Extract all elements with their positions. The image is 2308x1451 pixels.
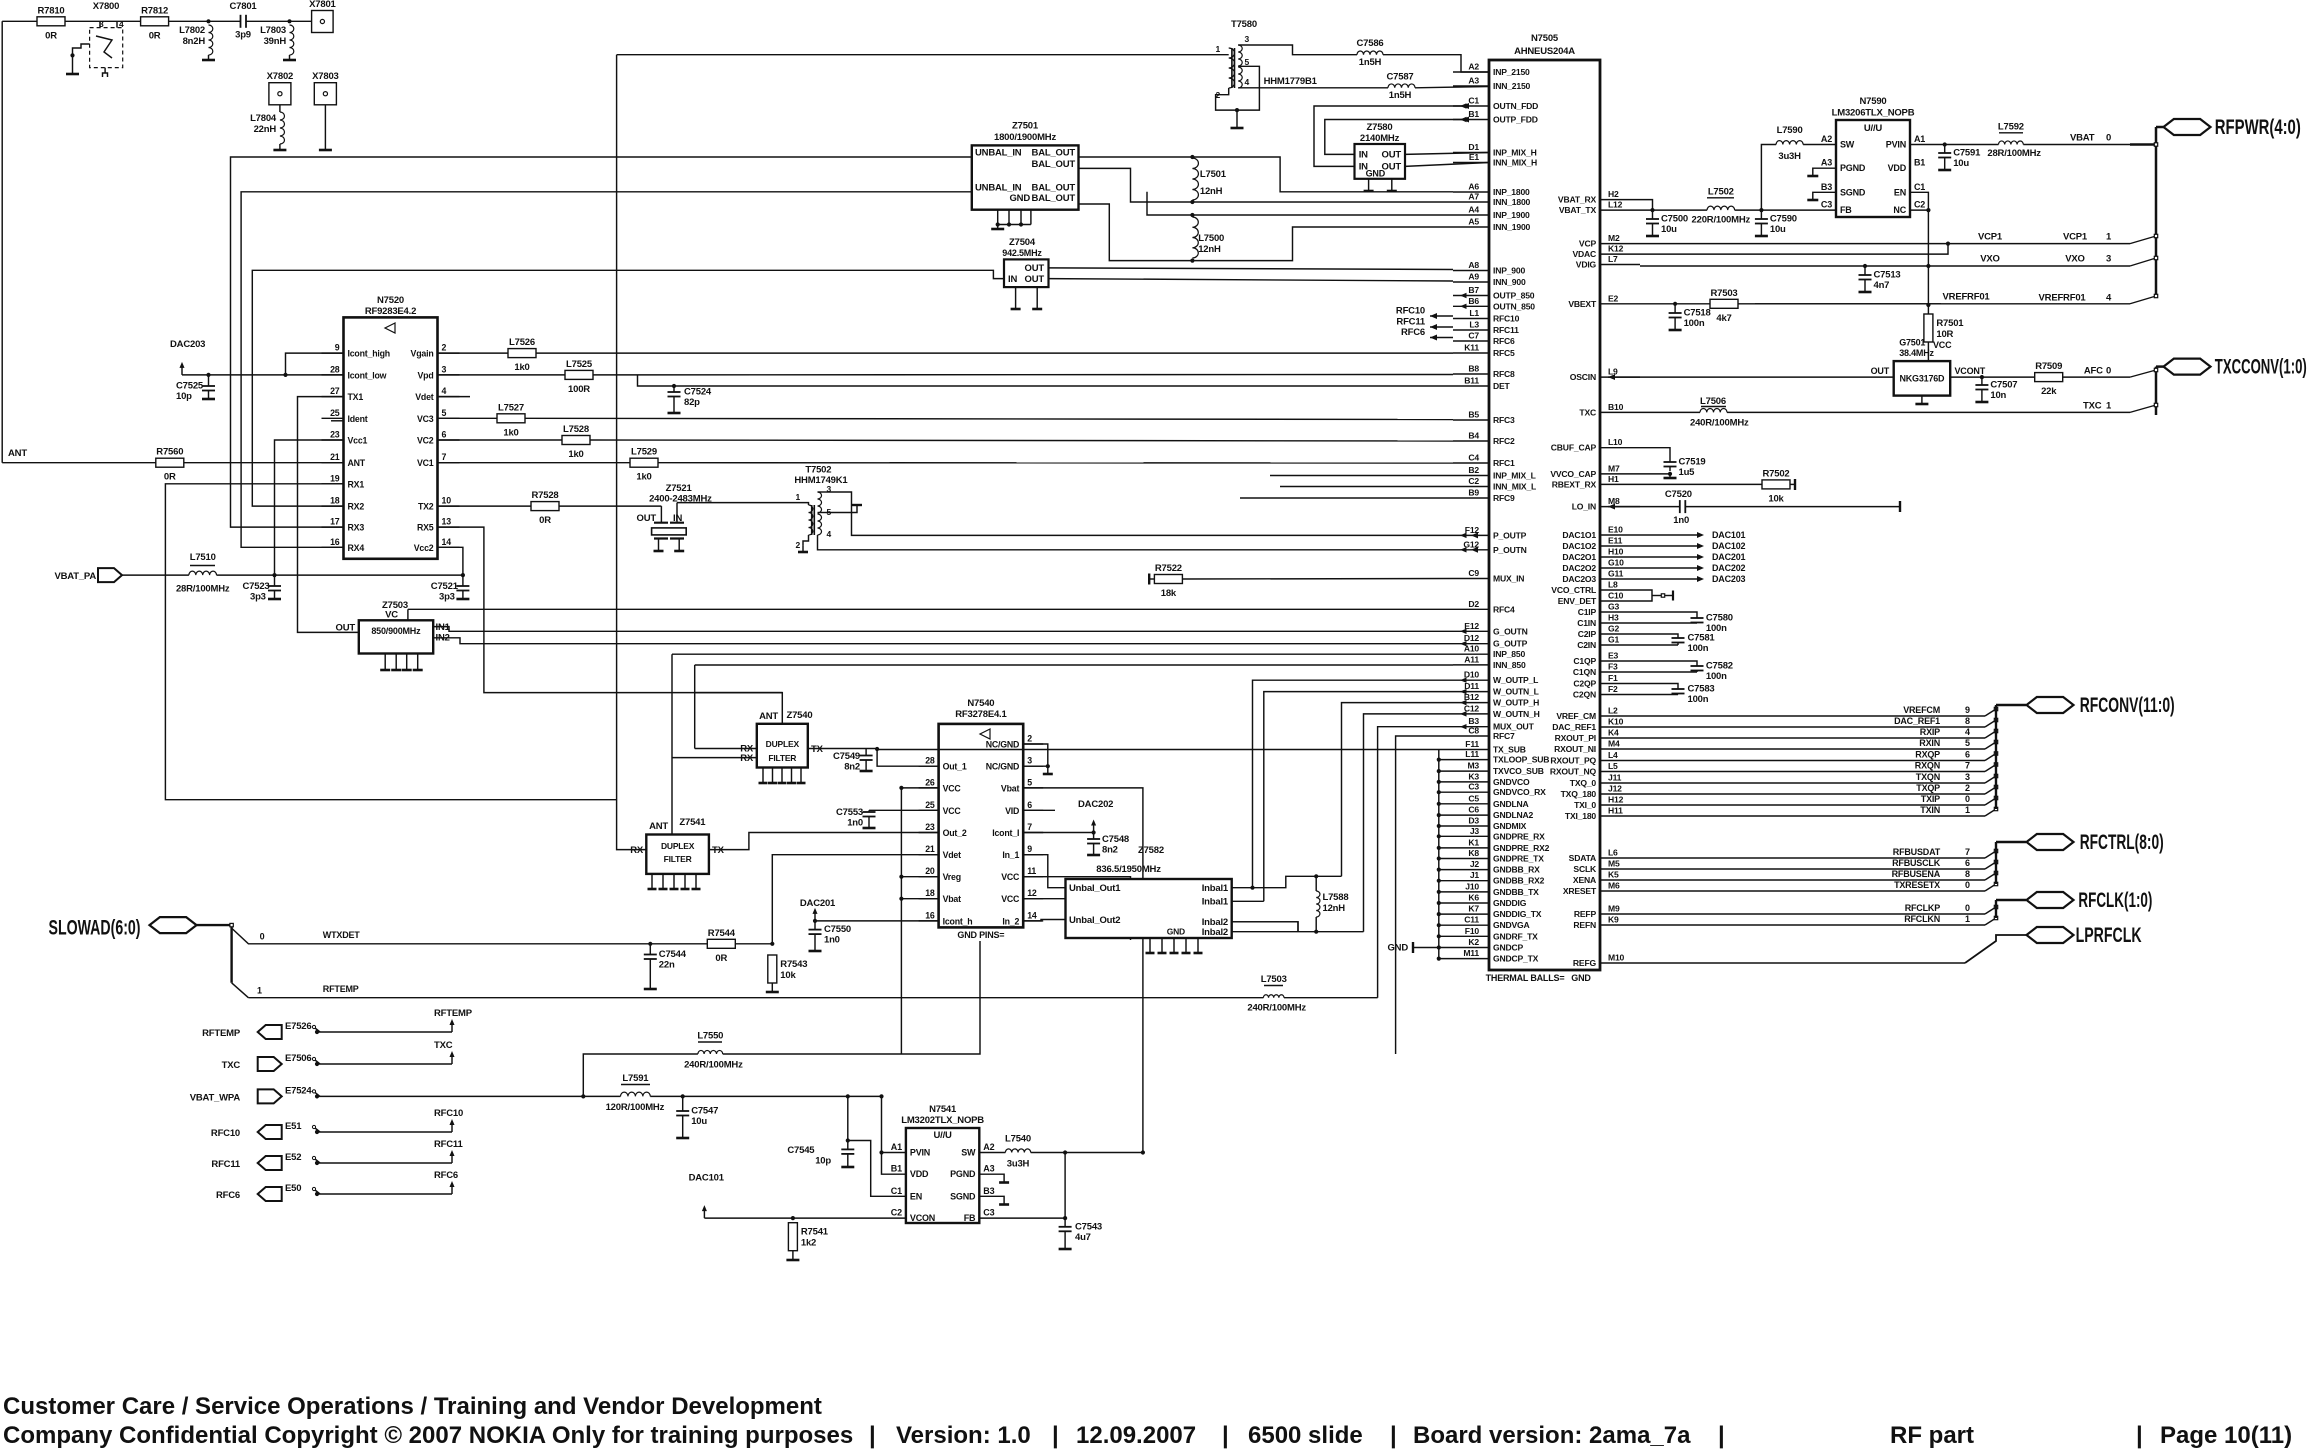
svg-text:18k: 18k — [1161, 588, 1177, 599]
svg-text:L7501: L7501 — [1200, 169, 1227, 180]
svg-text:K6: K6 — [1468, 893, 1479, 903]
wire T7580 pin1 — [617, 54, 1229, 56]
wire Z7504 OUT1 to INP_900 — [1049, 268, 1454, 270]
node GND — [1387, 942, 1438, 954]
ground — [402, 654, 412, 671]
svg-text:26: 26 — [925, 777, 935, 787]
wire RX3 to Z7501 — [231, 157, 972, 527]
svg-text:K3: K3 — [1468, 771, 1479, 781]
svg-text:VBEXT: VBEXT — [1568, 299, 1597, 309]
capacitor C7518 — [1669, 304, 1711, 329]
svg-text:L7804: L7804 — [250, 113, 277, 124]
svg-text:C2: C2 — [1468, 476, 1479, 486]
svg-text:C7801: C7801 — [230, 1, 258, 12]
svg-text:X7801: X7801 — [309, 0, 336, 10]
svg-text:VREFRF01: VREFRF01 — [1943, 292, 1991, 303]
ground — [273, 149, 286, 152]
ground — [1859, 291, 1872, 294]
wire Vbat18 — [899, 788, 938, 1054]
svg-text:RXOUT_NQ: RXOUT_NQ — [1550, 767, 1597, 777]
svg-text:INN_2150: INN_2150 — [1493, 81, 1531, 91]
svg-text:W_OUTP_L: W_OUTP_L — [1493, 675, 1538, 685]
wire Z7540 ANT — [695, 693, 783, 724]
svg-text:R7560: R7560 — [156, 447, 183, 458]
svg-text:C7582: C7582 — [1706, 661, 1733, 672]
svg-text:VCC: VCC — [1001, 872, 1020, 882]
svg-text:H2: H2 — [1608, 189, 1619, 199]
svg-text:N7590: N7590 — [1860, 96, 1887, 107]
ground — [991, 225, 1004, 230]
ground — [1915, 396, 1928, 404]
svg-text:82p: 82p — [684, 397, 700, 408]
svg-text:RFCLK(1:0): RFCLK(1:0) — [2078, 889, 2152, 912]
inductor L7540 — [1005, 1134, 1031, 1170]
svg-text:AHNEUS204A: AHNEUS204A — [1514, 46, 1575, 57]
wire VBAT rail to FB — [1735, 208, 1836, 212]
svg-text:H3: H3 — [1608, 613, 1619, 623]
svg-text:1u5: 1u5 — [1679, 467, 1696, 478]
svg-text:DAC2O2: DAC2O2 — [1562, 563, 1596, 573]
svg-text:Z7540: Z7540 — [787, 710, 813, 721]
bus LPRFCLK — [1640, 935, 2026, 963]
svg-text:C1: C1 — [1914, 182, 1925, 192]
ground — [1938, 169, 1951, 172]
module Z7503 850/900MHz — [336, 600, 451, 654]
svg-text:VBAT: VBAT — [2070, 133, 2095, 144]
svg-text:NKG3176D: NKG3176D — [1899, 374, 1945, 384]
wire ANT — [8, 448, 344, 463]
svg-text:6: 6 — [1965, 858, 1970, 868]
svg-text:|: | — [2136, 1422, 2143, 1449]
svg-text:4: 4 — [442, 386, 447, 396]
svg-text:HHM1779B1: HHM1779B1 — [1264, 76, 1318, 87]
svg-text:OUTN_FDD: OUTN_FDD — [1493, 101, 1538, 111]
svg-text:12: 12 — [1027, 888, 1037, 898]
wire L7540 out — [1031, 1150, 1145, 1154]
svg-text:C7519: C7519 — [1679, 457, 1706, 468]
svg-text:IN: IN — [1359, 150, 1368, 161]
svg-text:RFC10: RFC10 — [434, 1108, 463, 1119]
svg-text:INN_MIX_L: INN_MIX_L — [1493, 482, 1536, 492]
svg-text:H10: H10 — [1608, 547, 1624, 557]
svg-text:INP_900: INP_900 — [1493, 266, 1525, 276]
svg-text:L7591: L7591 — [622, 1073, 649, 1084]
svg-text:RX4: RX4 — [348, 543, 365, 553]
svg-text:20: 20 — [925, 866, 935, 876]
wire BAL_OUT1 to INP_1800 — [1079, 157, 1454, 192]
wire Vbat5 rail — [1023, 788, 1143, 1153]
svg-text:RFC10: RFC10 — [1493, 314, 1520, 324]
ground pin Z7540 — [787, 768, 796, 784]
svg-text:27: 27 — [330, 386, 340, 396]
svg-text:E10: E10 — [1608, 525, 1623, 535]
svg-text:XENA: XENA — [1573, 875, 1596, 885]
connector X7801 — [309, 0, 336, 33]
svg-text:G_OUTN: G_OUTN — [1493, 626, 1528, 636]
svg-text:R7541: R7541 — [801, 1227, 829, 1238]
ground — [456, 598, 469, 601]
svg-text:Z7521: Z7521 — [666, 483, 693, 494]
resistor R7528 — [531, 490, 559, 526]
svg-text:B5: B5 — [1468, 410, 1479, 420]
svg-text:INP_MIX_L: INP_MIX_L — [1493, 471, 1536, 481]
svg-text:6: 6 — [1027, 800, 1032, 810]
svg-text:E7526: E7526 — [285, 1021, 311, 1032]
svg-text:VREFRF01: VREFRF01 — [2039, 293, 2087, 304]
svg-text:GNDVCO_RX: GNDVCO_RX — [1493, 787, 1546, 797]
svg-text:19: 19 — [330, 473, 340, 483]
svg-text:9: 9 — [1965, 705, 1970, 715]
svg-text:Z7504: Z7504 — [1009, 237, 1036, 248]
capacitor C7548 — [1087, 833, 1129, 856]
resistor R7543 — [768, 955, 808, 983]
wire WTXDET — [232, 928, 651, 944]
svg-text:A9: A9 — [1468, 272, 1479, 282]
svg-text:23: 23 — [925, 822, 935, 832]
wire — [792, 1251, 794, 1259]
transistor X7800 (GaAs switch, dashed) — [66, 1, 124, 77]
svg-text:ANT: ANT — [348, 458, 366, 468]
svg-text:850/900MHz: 850/900MHz — [371, 626, 421, 636]
ground — [786, 1259, 799, 1262]
svg-text:100n: 100n — [1688, 694, 1709, 705]
svg-text:RXOUT_NI: RXOUT_NI — [1554, 744, 1596, 754]
svg-text:RFC5: RFC5 — [1493, 348, 1515, 358]
svg-text:XRESET: XRESET — [1563, 886, 1597, 896]
wire VDD — [882, 1153, 906, 1175]
wire VBAT to RFPWR — [2023, 133, 2130, 145]
svg-text:E7524: E7524 — [285, 1085, 312, 1096]
svg-text:DAC_REF1: DAC_REF1 — [1894, 716, 1940, 726]
svg-text:100n: 100n — [1684, 318, 1705, 329]
svg-text:C7: C7 — [1468, 331, 1479, 341]
svg-text:REFP: REFP — [1574, 909, 1597, 919]
ground pin Z7541 — [648, 874, 657, 889]
svg-text:L2: L2 — [1608, 706, 1618, 716]
svg-text:GNDDIG_TX: GNDDIG_TX — [1493, 909, 1542, 919]
svg-text:R7528: R7528 — [532, 490, 559, 501]
svg-text:C7518: C7518 — [1684, 308, 1711, 319]
ground — [860, 770, 873, 773]
svg-text:A2: A2 — [1468, 62, 1479, 72]
svg-text:Vbat: Vbat — [943, 894, 962, 904]
svg-text:0: 0 — [260, 932, 265, 942]
svg-text:GNDBB_TX: GNDBB_TX — [1493, 887, 1539, 897]
svg-text:120R/100MHz: 120R/100MHz — [606, 1102, 665, 1113]
svg-text:R7812: R7812 — [141, 5, 168, 16]
svg-text:GND: GND — [1387, 943, 1408, 954]
svg-text:TX_SUB: TX_SUB — [1493, 745, 1526, 755]
svg-text:UNBAL_IN: UNBAL_IN — [975, 148, 1022, 159]
svg-text:R7522: R7522 — [1155, 563, 1182, 574]
svg-text:10u: 10u — [691, 1116, 707, 1127]
node DAC201 — [1640, 552, 1746, 562]
svg-text:2: 2 — [1027, 734, 1032, 744]
wire SW to L7540 — [979, 1152, 1005, 1154]
svg-text:SGND: SGND — [1840, 187, 1866, 197]
ground — [319, 149, 332, 152]
svg-text:B11: B11 — [1464, 376, 1479, 386]
svg-text:0: 0 — [1965, 903, 1970, 913]
ground — [1043, 773, 1053, 776]
wire — [771, 983, 773, 991]
svg-text:A2: A2 — [1821, 134, 1832, 144]
svg-text:L4: L4 — [1608, 750, 1618, 760]
svg-text:Inbal1: Inbal1 — [1202, 883, 1229, 894]
wire Icont_h DAC201 — [813, 919, 939, 923]
wire VBAT_RX — [1640, 200, 1653, 211]
svg-text:5: 5 — [1027, 777, 1032, 787]
ground pin Z7582 — [1182, 938, 1191, 953]
wire ANT left — [2, 462, 156, 464]
wire — [324, 105, 326, 149]
wire PGND — [979, 1174, 1009, 1182]
svg-text:INP_MIX_H: INP_MIX_H — [1493, 148, 1537, 158]
svg-text:C7520: C7520 — [1665, 489, 1692, 500]
wire LO_IN right — [1685, 501, 1900, 512]
svg-text:F3: F3 — [1608, 662, 1618, 672]
svg-text:TXI_180: TXI_180 — [1565, 811, 1597, 821]
svg-text:C7548: C7548 — [1102, 834, 1129, 845]
svg-text:C4: C4 — [1468, 453, 1479, 463]
svg-text:0: 0 — [1965, 880, 1970, 890]
wire VDIG to VXO — [1640, 254, 2130, 269]
svg-text:D11: D11 — [1464, 681, 1479, 691]
wire LO_IN — [1608, 489, 1692, 510]
svg-text:VVCO_CAP: VVCO_CAP — [1550, 469, 1596, 479]
svg-text:M9: M9 — [1608, 904, 1620, 914]
wire to INN_2150 — [1415, 87, 1489, 88]
svg-text:SW: SW — [961, 1148, 976, 1158]
svg-text:RFC11: RFC11 — [434, 1139, 463, 1150]
svg-text:T7502: T7502 — [805, 465, 831, 476]
svg-text:100n: 100n — [1688, 643, 1709, 654]
svg-text:23: 23 — [330, 430, 340, 440]
svg-text:D3: D3 — [1468, 816, 1479, 826]
svg-text:L7506: L7506 — [1700, 396, 1726, 407]
svg-text:L7588: L7588 — [1323, 892, 1349, 903]
svg-text:RFTEMP: RFTEMP — [323, 984, 359, 994]
svg-text:BAL_OUT: BAL_OUT — [1032, 193, 1076, 204]
wire Z7580 OUT2 to INN_MIX_H — [1405, 163, 1489, 167]
svg-text:J1: J1 — [1470, 870, 1480, 880]
svg-text:|: | — [1052, 1422, 1059, 1449]
ground — [1664, 477, 1677, 480]
svg-text:14: 14 — [1027, 910, 1037, 920]
wire TX2 — [438, 505, 532, 507]
svg-text:RFBUSCLK: RFBUSCLK — [1892, 858, 1941, 868]
svg-text:L7: L7 — [1608, 254, 1618, 264]
svg-text:GNDDIG: GNDDIG — [1493, 898, 1527, 908]
inductor L7529 — [630, 447, 658, 483]
svg-text:A3: A3 — [1821, 158, 1832, 168]
svg-text:C1: C1 — [891, 1186, 902, 1196]
svg-text:Unbal_Out1: Unbal_Out1 — [1069, 883, 1121, 894]
wire Z7503 IN1 to G_OUTN — [433, 627, 1453, 632]
svg-text:U//U: U//U — [1864, 123, 1883, 134]
svg-text:RFC8: RFC8 — [1493, 369, 1515, 379]
wire T7502 pin4 P_OUTN — [826, 547, 1478, 553]
svg-text:C7543: C7543 — [1075, 1221, 1102, 1232]
svg-text:10n: 10n — [1990, 390, 2006, 401]
svg-text:C1QP: C1QP — [1573, 656, 1596, 666]
ground pin Z7540 — [759, 768, 768, 784]
ground pin Z7501 — [1020, 210, 1022, 225]
svg-text:DAC1O1: DAC1O1 — [1562, 530, 1596, 540]
wire Vdet to R7543 — [772, 855, 938, 944]
svg-text:R7544: R7544 — [708, 928, 736, 939]
svg-text:GNDBB_RX: GNDBB_RX — [1493, 865, 1540, 875]
wire TXC out — [1640, 396, 1726, 412]
svg-text:LO_IN: LO_IN — [1572, 502, 1596, 512]
node DAC101 — [1640, 530, 1746, 540]
wire RX4 to Z7501 — [241, 192, 972, 548]
svg-text:1: 1 — [1965, 914, 1970, 924]
svg-text:FILTER: FILTER — [768, 753, 796, 763]
wire VID — [1023, 809, 1055, 811]
svg-text:RFCLKP: RFCLKP — [1905, 903, 1940, 913]
svg-text:Customer Care / Service Operat: Customer Care / Service Operations / Tra… — [3, 1393, 822, 1420]
svg-text:3: 3 — [1245, 34, 1250, 44]
svg-text:1n0: 1n0 — [1673, 515, 1689, 526]
svg-text:DAC203: DAC203 — [170, 339, 205, 350]
resistor R7501 — [1924, 314, 1964, 342]
node DAC102 — [1640, 541, 1746, 551]
svg-text:Vpd: Vpd — [417, 370, 433, 380]
svg-text:SCLK: SCLK — [1573, 864, 1597, 874]
svg-text:RFBUSDAT: RFBUSDAT — [1893, 847, 1941, 857]
wire TX2 to Z7521 — [559, 505, 661, 507]
svg-text:5: 5 — [1245, 57, 1250, 67]
wire riser x694 — [694, 665, 696, 749]
svg-text:L7525: L7525 — [566, 359, 593, 370]
resistor R7812 — [141, 5, 169, 41]
svg-text:B7: B7 — [1468, 285, 1479, 295]
svg-text:RFC11: RFC11 — [1396, 317, 1425, 328]
inductor L7592 — [1945, 122, 2042, 160]
inductor L7588 — [1316, 876, 1348, 931]
wire W_OUTN_L — [1264, 692, 1453, 902]
svg-text:L7503: L7503 — [1261, 974, 1287, 985]
wire Inbal1b — [1232, 900, 1264, 902]
wire Z7504 OUT2 to INN_900 — [1049, 279, 1454, 281]
filter Z7504 942.5MHz — [1002, 237, 1048, 287]
svg-text:0R: 0R — [539, 515, 551, 526]
wire TXC riser — [583, 1054, 698, 1096]
svg-text:VXO: VXO — [2065, 254, 2084, 265]
wire TX_SUB — [877, 749, 1453, 751]
svg-text:1800/1900MHz: 1800/1900MHz — [994, 132, 1056, 143]
wire T7502 pin5 gnd — [826, 505, 862, 513]
svg-text:A8: A8 — [1468, 260, 1479, 270]
svg-text:1k0: 1k0 — [568, 449, 583, 460]
svg-text:INN_1900: INN_1900 — [1493, 222, 1531, 232]
wire ANT net vertical — [1, 21, 3, 462]
svg-text:Ident: Ident — [348, 414, 368, 424]
svg-text:28R/100MHz: 28R/100MHz — [176, 584, 230, 595]
svg-text:M3: M3 — [1467, 761, 1479, 771]
svg-text:RX3: RX3 — [348, 523, 365, 533]
svg-text:C7545: C7545 — [787, 1145, 815, 1156]
wire T7580 pin4 to C7587 — [1238, 76, 1388, 88]
svg-text:INN_1800: INN_1800 — [1493, 197, 1531, 207]
svg-text:OUT: OUT — [637, 513, 657, 524]
svg-text:0R: 0R — [45, 30, 57, 41]
svg-text:E1: E1 — [1469, 152, 1480, 162]
svg-text:C2QP: C2QP — [1573, 679, 1596, 689]
wire Icont_I — [1023, 830, 1095, 834]
capacitor C7583 — [1672, 684, 1715, 706]
svg-text:BAL_OUT: BAL_OUT — [1032, 183, 1076, 194]
wire VCON — [704, 1216, 906, 1220]
svg-text:GNDMIX: GNDMIX — [1493, 821, 1527, 831]
svg-text:VC1: VC1 — [417, 458, 434, 468]
inductor C7587 (1n5H) — [1387, 72, 1416, 102]
wire BAL_OUT3 to INP_1900 — [1078, 191, 1080, 193]
node RFC6 — [1401, 327, 1453, 340]
wire VCC — [1928, 340, 1952, 361]
inductor L7525 — [438, 359, 594, 395]
filter Z7540 duplex — [740, 710, 823, 768]
svg-text:K9: K9 — [1608, 915, 1619, 925]
wire to R7544 — [650, 943, 707, 945]
inductor L7591 — [606, 1073, 665, 1113]
svg-text:OSCIN: OSCIN — [1570, 372, 1596, 382]
wire RFC2 line — [590, 440, 1453, 441]
svg-text:VCC: VCC — [1933, 340, 1952, 350]
svg-text:17: 17 — [330, 517, 340, 527]
node DAC203 — [170, 339, 205, 375]
svg-text:Vbat: Vbat — [1001, 783, 1020, 793]
wire T7580 pin2 — [1216, 88, 1240, 112]
svg-text:B3: B3 — [983, 1186, 994, 1196]
svg-text:SGND: SGND — [950, 1191, 976, 1201]
svg-text:1k0: 1k0 — [514, 362, 529, 373]
capacitor C7801 — [230, 1, 258, 41]
wire Vcc2 — [438, 547, 463, 575]
ground — [1669, 329, 1682, 332]
svg-text:Vgain: Vgain — [411, 349, 434, 359]
ground — [1975, 401, 1988, 404]
ground — [268, 598, 281, 601]
connector RFCTRL(8:0) — [2027, 831, 2164, 854]
svg-text:B1: B1 — [891, 1164, 902, 1174]
svg-text:PVIN: PVIN — [910, 1148, 930, 1158]
svg-text:8: 8 — [1965, 716, 1970, 726]
svg-text:VCO_CTRL: VCO_CTRL — [1551, 585, 1596, 595]
svg-text:DUPLEX: DUPLEX — [766, 739, 800, 749]
svg-text:TXIP: TXIP — [1921, 794, 1940, 804]
svg-text:TXC: TXC — [222, 1060, 241, 1071]
capacitor C7553 body — [836, 807, 876, 829]
svg-text:12.09.2007: 12.09.2007 — [1076, 1422, 1196, 1449]
wire OUTN_FDD to Z7580 — [1314, 103, 1469, 166]
svg-text:C7547: C7547 — [691, 1106, 718, 1117]
wire — [65, 20, 141, 22]
svg-text:VID: VID — [1005, 806, 1019, 816]
svg-text:100n: 100n — [1706, 671, 1727, 682]
ground pin Z7580 — [1387, 179, 1397, 191]
wire Z7503 VC — [407, 609, 409, 620]
svg-text:L12: L12 — [1608, 200, 1623, 210]
wire Vdet — [438, 396, 471, 398]
connector RFTEMP pad E7526 — [202, 1008, 473, 1039]
svg-text:12nH: 12nH — [1198, 244, 1221, 255]
svg-text:21: 21 — [330, 452, 340, 462]
svg-text:G2: G2 — [1608, 624, 1619, 634]
svg-text:Inbal1: Inbal1 — [1202, 897, 1229, 908]
text footer line1 — [3, 1393, 822, 1420]
